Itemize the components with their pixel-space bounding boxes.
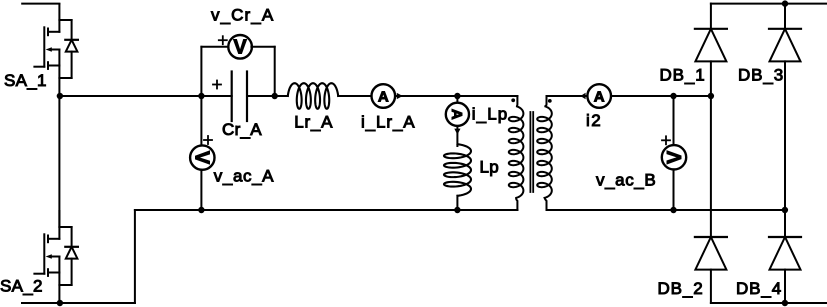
- arrow i2: [580, 93, 585, 100]
- wire Lr_A to ammeter: [338, 95, 372, 97]
- label i2: [586, 111, 602, 130]
- node capacitor left junction: [198, 93, 204, 99]
- svg-text:DB_4: DB_4: [736, 279, 782, 298]
- label i_Lr_A: [361, 113, 416, 132]
- wire DB_4 anode lead: [784, 270, 786, 303]
- wire DB_3 cathode lead: [784, 4, 786, 29]
- diode DB_2: [695, 237, 727, 270]
- wire DB_1 anode lead: [710, 61, 712, 96]
- label Lr_A: [294, 113, 333, 132]
- svg-text:Lr_A: Lr_A: [294, 113, 333, 132]
- svg-text:SA_1: SA_1: [4, 71, 47, 90]
- node v_ac_A bottom junction: [198, 207, 204, 213]
- wire bottom output rail: [711, 302, 827, 304]
- wire top output rail: [711, 3, 827, 5]
- wire DB_1 DB_2 interconnect: [710, 96, 712, 237]
- plus sign Cr_A: [213, 81, 221, 89]
- wire DB_2 anode lead: [710, 270, 712, 303]
- node SA_1 source junction: [57, 93, 63, 99]
- svg-text:i_Lr_A: i_Lr_A: [361, 113, 416, 132]
- node i2 bridge junction: [708, 93, 714, 99]
- label Lp: [480, 158, 500, 177]
- label v_Cr_A: [211, 6, 274, 25]
- plus sign v_Cr_A: [219, 36, 227, 44]
- voltmeter v_Cr_A: [228, 35, 252, 59]
- node v_ac_B top junction: [670, 93, 676, 99]
- wire Lp to bottom rail: [456, 196, 458, 210]
- transformer primary winding: [509, 96, 524, 210]
- wire v_Cr_A left branch: [201, 47, 228, 96]
- svg-text:Cr_A: Cr_A: [222, 120, 262, 139]
- node v_ac_B bottom junction: [670, 207, 676, 213]
- wire main ac node A: [59, 95, 231, 97]
- label DB_1: [660, 66, 706, 85]
- svg-text:V: V: [664, 150, 686, 164]
- label SA_2: [0, 277, 43, 296]
- node DB_4 bottom junction: [782, 300, 788, 306]
- wire v_ac_B lower lead: [673, 169, 675, 210]
- wire v_ac_A upper lead: [200, 96, 202, 146]
- transistor SA_2 (MOSFET with body diode): [34, 211, 78, 303]
- inductor Lp: [444, 144, 471, 196]
- arrow i_Lp: [454, 129, 460, 135]
- svg-text:v_ac_A: v_ac_A: [214, 167, 274, 186]
- svg-text:DB_2: DB_2: [658, 279, 704, 298]
- wire capacitor to inductor: [247, 95, 288, 97]
- svg-text:v_ac_B: v_ac_B: [596, 171, 656, 190]
- svg-text:DB_3: DB_3: [738, 66, 784, 85]
- wire DB_3 anode lead: [784, 61, 786, 210]
- wire DB_1 cathode lead: [710, 4, 712, 29]
- svg-text:DB_1: DB_1: [660, 66, 706, 85]
- transformer secondary winding: [537, 96, 552, 210]
- node i_Lp top junction: [454, 93, 460, 99]
- wire top-left input stub: [22, 3, 59, 5]
- wire SA_2 drain leg: [58, 96, 60, 227]
- voltmeter v_ac_B: [662, 145, 686, 169]
- node rail to DB_3 DB_4 midpoint: [782, 207, 788, 213]
- ammeter i2: [587, 84, 611, 108]
- wire ammeter to node: [397, 95, 458, 97]
- label Cr_A: [222, 120, 262, 139]
- plus sign v_ac_B: [662, 136, 670, 144]
- ammeter i_Lp: [446, 103, 469, 126]
- svg-text:SA_2: SA_2: [0, 277, 43, 296]
- wire left return riser: [134, 210, 136, 303]
- label SA_1: [4, 71, 47, 90]
- svg-text:A: A: [448, 109, 465, 120]
- node SA_2 source junction: [57, 300, 63, 306]
- wire DB_4 cathode lead: [784, 210, 786, 237]
- arrow i_Lr_A: [397, 93, 403, 99]
- wire i2 to bridge: [611, 95, 711, 97]
- wire v_ac_B upper lead: [673, 96, 675, 145]
- svg-text:v_Cr_A: v_Cr_A: [211, 6, 274, 25]
- wire v_ac_A lower lead: [200, 170, 202, 210]
- inductor Lr_A: [288, 83, 338, 109]
- label DB_4: [736, 279, 782, 298]
- label i_Lp: [472, 105, 509, 124]
- wire secondary to i2 ammeter: [547, 95, 588, 97]
- svg-text:Lp: Lp: [480, 158, 500, 177]
- wire bottom-left rail: [22, 302, 135, 304]
- wire node to i_Lp ammeter: [456, 96, 458, 103]
- ammeter i_Lr_A: [372, 84, 396, 108]
- svg-text:A: A: [378, 88, 389, 105]
- wire v_Cr_A right branch: [251, 47, 274, 96]
- wire secondary bottom rail: [547, 209, 785, 211]
- node Lp bottom junction: [454, 207, 460, 213]
- plus sign v_ac_A: [204, 136, 212, 144]
- svg-text:A: A: [594, 88, 605, 105]
- node capacitor right junction: [272, 93, 278, 99]
- label DB_2: [658, 279, 704, 298]
- transformer polarity dot primary: [511, 98, 515, 102]
- wire node to transformer primary: [457, 95, 517, 97]
- diode DB_3: [769, 29, 801, 62]
- wire i_Lp ammeter to Lp: [456, 126, 458, 146]
- transistor SA_1 (MOSFET with body diode): [34, 4, 78, 96]
- wire primary bottom rail: [135, 209, 518, 211]
- transformer core: [530, 112, 533, 192]
- svg-text:V: V: [191, 151, 213, 165]
- voltmeter v_ac_A: [190, 145, 214, 169]
- label v_ac_B: [596, 171, 656, 190]
- svg-text:i2: i2: [586, 111, 602, 130]
- capacitor Cr_A: [232, 72, 247, 122]
- diode DB_1: [695, 29, 727, 62]
- label DB_3: [738, 66, 784, 85]
- svg-text:i_Lp: i_Lp: [472, 105, 509, 124]
- diode DB_4: [769, 237, 801, 270]
- node DB_3 top junction: [782, 0, 788, 6]
- svg-text:V: V: [233, 37, 247, 59]
- label v_ac_A: [214, 167, 274, 186]
- transformer polarity dot secondary: [548, 99, 552, 103]
